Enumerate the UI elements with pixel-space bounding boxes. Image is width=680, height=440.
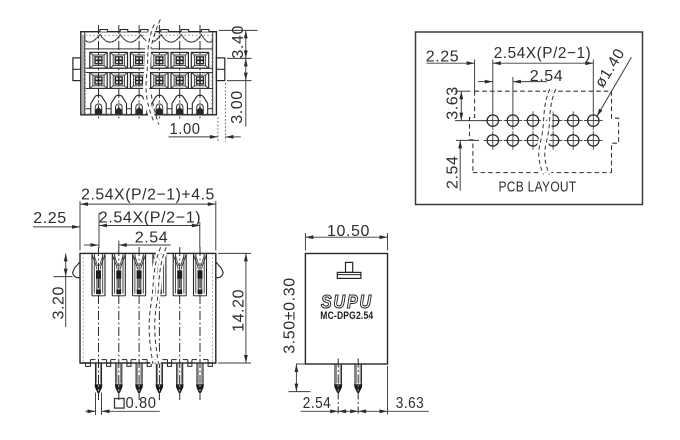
side view body outline <box>305 254 387 365</box>
pin square dimension 0.80 front view <box>86 393 160 416</box>
svg-text:ø1.40: ø1.40 <box>592 46 629 91</box>
front view contact slots <box>92 253 207 295</box>
dimension 14.20 front view <box>218 253 251 363</box>
top view column centerlines <box>99 25 201 121</box>
dimension 3.50±0.30 side view <box>282 277 311 391</box>
dimension 2.54X(P/2-1)+4.5 front view <box>80 187 216 251</box>
svg-text:2.54X(P/2−1): 2.54X(P/2−1) <box>494 45 592 62</box>
part number MC-DPG2.54 side view <box>320 310 373 322</box>
svg-text:MC-DPG2.54: MC-DPG2.54 <box>320 310 373 322</box>
dimension 2.54X(P/2-1) front view <box>99 209 202 248</box>
dimension 2.54X(P/2-1) PCB <box>493 45 594 112</box>
SUPU logo side view <box>321 292 373 312</box>
top view scalloped mating edge <box>85 35 212 49</box>
dimension 2.54 vertical PCB <box>445 140 479 190</box>
svg-text:2.25: 2.25 <box>426 48 460 65</box>
svg-text:2.54: 2.54 <box>135 229 169 246</box>
svg-text:3.63: 3.63 <box>396 395 425 412</box>
svg-text:3.63: 3.63 <box>444 86 461 120</box>
front view left latch <box>73 262 80 278</box>
svg-text:1.00: 1.00 <box>170 121 201 138</box>
dimension 1.00 top view <box>169 83 241 142</box>
svg-text:PCB LAYOUT: PCB LAYOUT <box>499 178 577 195</box>
PCB footprint dashed outline <box>470 91 619 172</box>
top view left mounting ear <box>73 58 81 81</box>
svg-text:3.00: 3.00 <box>229 90 246 124</box>
PCB layout border box <box>416 32 643 205</box>
PCB break lines <box>539 89 556 175</box>
dimension 2.25 PCB <box>426 48 493 91</box>
dimension 3.00 top view <box>227 58 252 126</box>
svg-text:3.50±0.30: 3.50±0.30 <box>282 277 299 353</box>
svg-text:SUPU: SUPU <box>321 292 373 312</box>
svg-text:3.20: 3.20 <box>50 286 67 320</box>
dimension 3.40 top view <box>219 25 258 59</box>
dimension 2.25 front view <box>33 210 99 247</box>
top view right mounting ear <box>216 58 224 81</box>
dimension 2.54 side view <box>301 395 359 413</box>
dimension 10.50 side view <box>305 223 387 250</box>
svg-text:3.40: 3.40 <box>230 25 247 59</box>
svg-text:14.20: 14.20 <box>230 289 247 332</box>
svg-text:0.80: 0.80 <box>126 395 157 412</box>
front view column centerlines <box>99 247 201 401</box>
svg-text:2.54: 2.54 <box>530 68 564 85</box>
top view break lines <box>146 20 160 125</box>
front view bottom edge with pin notches and feet <box>80 360 216 367</box>
svg-text:2.25: 2.25 <box>33 210 67 227</box>
dimension 2.54 horizontal PCB <box>513 68 563 112</box>
top view connector body outline <box>81 32 217 115</box>
top view bottom pin towers <box>86 95 213 115</box>
dimension 3.63 PCB <box>444 86 486 120</box>
svg-text:2.54: 2.54 <box>303 395 332 412</box>
PCB LAYOUT label <box>499 178 577 195</box>
hole diameter callout 1.40 PCB <box>592 46 632 118</box>
dimension 3.63 side view <box>358 366 429 415</box>
side view solder pins <box>335 359 362 414</box>
top view socket cavities 6x2 <box>86 52 213 88</box>
front view right latch <box>216 262 223 278</box>
top view polarization bumps on top edge <box>100 30 209 32</box>
PCB holes 6x2 with crosshairs <box>484 111 603 149</box>
svg-text:2.54X(P/2−1): 2.54X(P/2−1) <box>99 209 202 226</box>
svg-text:2.54X(P/2−1)+4.5: 2.54X(P/2−1)+4.5 <box>81 187 215 204</box>
svg-text:2.54: 2.54 <box>445 155 462 189</box>
front view solder pins <box>95 363 203 393</box>
front view break lines <box>149 247 166 363</box>
front view connector body outline <box>80 253 216 363</box>
dimension 2.54 front view <box>119 229 171 248</box>
side view polarization key tab <box>337 262 361 278</box>
dimension 3.20 front view <box>50 253 72 327</box>
svg-text:10.50: 10.50 <box>327 223 370 240</box>
